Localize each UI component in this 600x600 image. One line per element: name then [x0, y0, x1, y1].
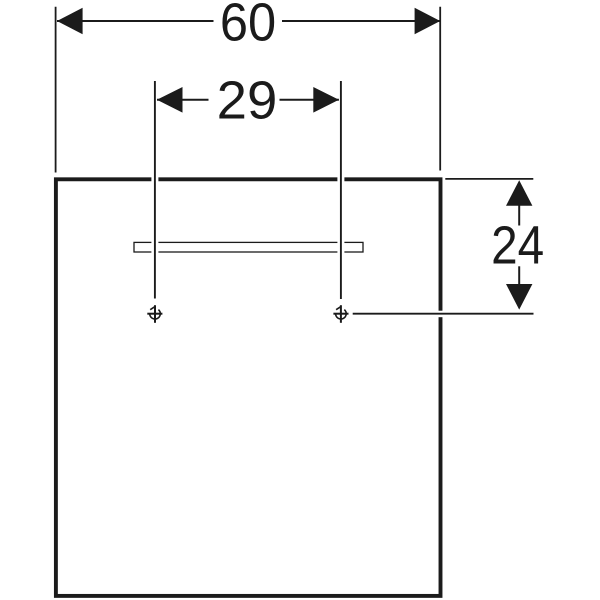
dimension line 60 left segment [57, 20, 214, 22]
extension line left of dimension 60 [55, 7, 57, 173]
extension line left of dimension 29 [154, 81, 156, 299]
arrowhead 24 up [506, 180, 532, 206]
halo gap in cabinet top edge at right 29 extension line [337, 177, 344, 183]
halo gap in shelf rail at left 29 extension line [151, 241, 158, 253]
dimension line 29 left segment [157, 99, 209, 101]
shelf rail [134, 242, 363, 252]
cabinet outline box [56, 179, 441, 596]
screw fixing symbol right [333, 305, 348, 323]
arrowhead 60 left [57, 8, 83, 34]
screw fixing symbol left [147, 305, 162, 323]
arrowhead 24 down [506, 284, 532, 310]
svg-text:24: 24 [491, 215, 544, 275]
extension line right of dimension 29 [340, 81, 342, 299]
dimension line 29 right segment [280, 99, 339, 101]
dimension line 24 lower segment [518, 266, 520, 285]
svg-text:29: 29 [217, 70, 278, 130]
arrowhead 29 left [157, 87, 183, 113]
halo gap in shelf rail at right 29 extension line [337, 241, 344, 253]
extension line right of dimension 60 [439, 7, 441, 171]
halo gap in cabinet right edge at 24 reference line [438, 311, 443, 318]
top reference line of dimension 24 [445, 178, 533, 180]
dimension line 60 right segment [282, 20, 440, 22]
bottom reference line of dimension 24 [353, 313, 534, 315]
svg-text:60: 60 [220, 0, 276, 52]
halo gap in cabinet top edge at left 29 extension line [151, 177, 158, 183]
dimension line 24 upper segment [518, 206, 520, 226]
arrowhead 29 right [313, 87, 339, 113]
arrowhead 60 right [415, 8, 441, 34]
